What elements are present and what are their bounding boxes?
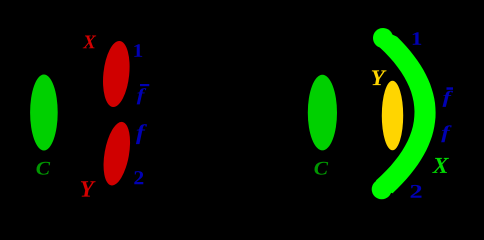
- label 2 (left, blue): [134, 171, 143, 184]
- label f-bar (right, blue): f glyph: [443, 91, 454, 107]
- label 1 (right, blue): [413, 32, 421, 45]
- ellipse Y (right diagram, yellow object Y): [382, 81, 403, 151]
- label Y (left, red): [81, 181, 96, 196]
- label f (right, blue): [441, 125, 452, 142]
- overline bar of f-bar (left): [140, 84, 149, 86]
- label f-bar (left, blue): f glyph: [137, 88, 147, 104]
- label f (left, blue): [136, 124, 147, 144]
- overline bar of f-bar (right): [447, 87, 454, 90]
- label Y (right, gold): [372, 70, 387, 85]
- crescent X (right diagram, bright green crescent band): [376, 37, 436, 194]
- ellipse X (left diagram, top red object X): [100, 40, 133, 109]
- label C (right): [315, 162, 329, 175]
- label 1 (left, blue): [134, 44, 142, 57]
- ellipse C (right diagram, green object C): [308, 75, 337, 151]
- label X (left, red): [83, 36, 97, 49]
- label X (right, green): [432, 158, 449, 173]
- ellipse C (left diagram, green object C): [30, 75, 58, 151]
- label 2 (right, blue): [411, 185, 422, 198]
- label C (left): [37, 162, 51, 175]
- ellipse Y (left diagram, bottom red object Y): [99, 120, 134, 188]
